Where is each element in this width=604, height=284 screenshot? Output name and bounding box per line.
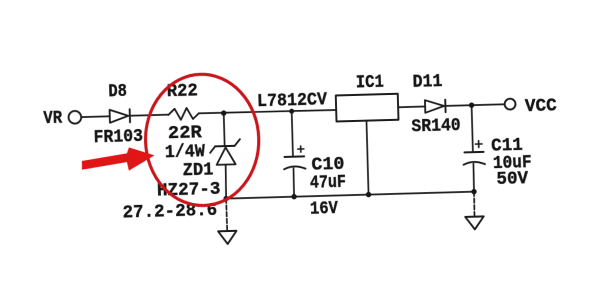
svg-text:16V: 16V [310, 199, 339, 220]
svg-text:47uF: 47uF [310, 173, 346, 194]
svg-text:D8: D8 [108, 82, 127, 103]
svg-text:D11: D11 [412, 72, 442, 93]
svg-text:VCC: VCC [525, 96, 558, 117]
svg-text:VR: VR [43, 109, 62, 130]
svg-text:SR140: SR140 [411, 116, 461, 137]
svg-text:L7812CV: L7812CV [257, 90, 328, 112]
svg-text:ZD1: ZD1 [182, 160, 213, 181]
svg-text:IC1: IC1 [356, 73, 385, 94]
svg-text:50V: 50V [496, 169, 528, 190]
svg-text:FR103: FR103 [93, 127, 143, 148]
svg-text:22R: 22R [168, 123, 203, 144]
